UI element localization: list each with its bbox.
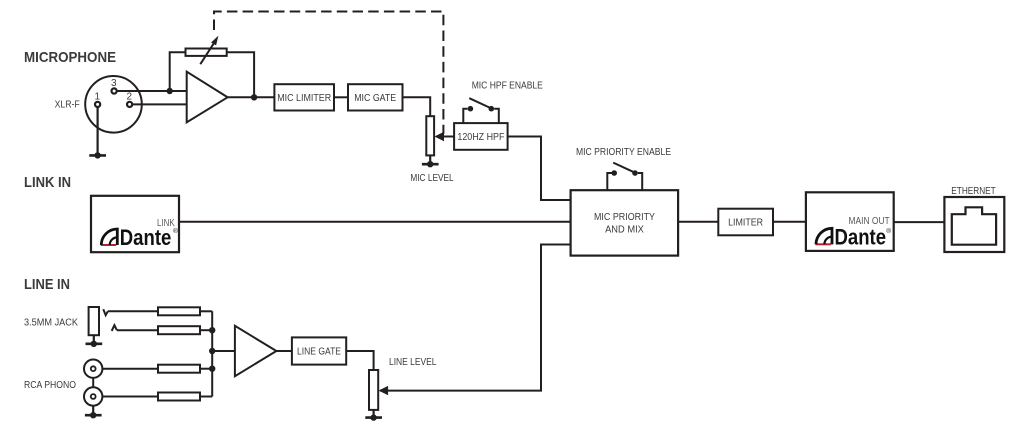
connector RCA phono 1 (84, 360, 102, 378)
jack tip contact (103, 309, 108, 315)
block MIC PRIORITY AND MIX (571, 190, 679, 255)
svg-text:MIC GATE: MIC GATE (354, 93, 396, 104)
wire R3 to bus (200, 329, 212, 331)
wire pot2 to ground (373, 410, 375, 418)
pin 2 (127, 102, 132, 107)
svg-text:ETHERNET: ETHERNET (951, 186, 995, 197)
wire limiter to gate (334, 96, 348, 98)
svg-text:LINE LEVEL: LINE LEVEL (389, 357, 437, 368)
wiper arrow MIC LEVEL (436, 136, 454, 138)
switch S2 mic priority enable (607, 173, 611, 190)
resistor R2 (158, 307, 200, 315)
wire line amp to gate (276, 350, 292, 352)
wire gate to line level pot (346, 351, 373, 370)
wire R2 to bus (200, 310, 212, 312)
svg-text:3: 3 (111, 78, 117, 89)
svg-text:LINE IN: LINE IN (24, 276, 70, 293)
op-amp U1 mic preamp (187, 72, 228, 123)
block Dante LINK (91, 196, 179, 252)
wire ring contact to R3 (117, 329, 158, 331)
wire pot to ground (429, 155, 431, 164)
potentiometer MIC LEVEL body (426, 116, 434, 155)
wire RCA1 to R4 (102, 368, 158, 370)
jack ring contact (112, 325, 117, 331)
switch S1 mic hpf enable (463, 109, 467, 123)
wire R5 to bus (200, 396, 212, 398)
block LIMITER (718, 209, 773, 236)
node bus junction R4 (209, 366, 215, 372)
svg-text:3.5MM JACK: 3.5MM JACK (24, 317, 78, 328)
wire link to mix (179, 221, 571, 223)
svg-text:XLR-F: XLR-F (55, 99, 80, 110)
wire main out to ethernet (894, 221, 945, 223)
wire feedback left branch (170, 52, 186, 91)
block LINE GATE (292, 337, 346, 364)
wire pin3 to amp input (117, 90, 187, 92)
svg-text:MIC HPF ENABLE: MIC HPF ENABLE (472, 81, 543, 92)
block MIC LIMITER (274, 84, 334, 110)
connector J1 XLR-F shell (85, 76, 142, 133)
svg-text:MIC PRIORITY ENABLE: MIC PRIORITY ENABLE (576, 147, 671, 158)
block Dante MAIN OUT (806, 192, 894, 251)
node amp output junction (251, 94, 257, 100)
svg-text:Dante: Dante (120, 225, 172, 250)
connector 3.5mm jack sleeve (89, 307, 99, 335)
dashed control link gain-to-mic-level (214, 12, 443, 135)
resistor R3 (158, 326, 200, 334)
ground XLR pin1 (89, 154, 106, 157)
wire RCA2 to ground (92, 406, 94, 416)
variable resistor R1 gain (186, 49, 227, 56)
ground LINE LEVEL (365, 416, 382, 419)
svg-text:LINE GATE: LINE GATE (297, 347, 341, 358)
svg-text:MIC LIMITER: MIC LIMITER (277, 93, 331, 104)
connector RCA phono 2 (84, 387, 102, 405)
connector ETHERNET outer (944, 197, 1004, 252)
Dante logo (LINK) (101, 225, 178, 250)
svg-text:LIMITER: LIMITER (728, 217, 763, 228)
resistor R5 (158, 393, 200, 401)
wire jack to ground (93, 335, 95, 344)
ground RCA (85, 414, 102, 417)
ground 3.5mm jack (86, 342, 103, 345)
svg-text:120HZ HPF: 120HZ HPF (457, 132, 504, 143)
wire feedback right branch (227, 52, 254, 97)
resistor R4 (158, 365, 200, 373)
op-amp U2 line amp (235, 326, 277, 376)
svg-text:2: 2 (127, 92, 133, 103)
wire hpf to mix (508, 137, 571, 201)
svg-text:MICROPHONE: MICROPHONE (24, 49, 116, 66)
wire R4 to bus (200, 368, 212, 370)
wire pin1 to ground (96, 107, 98, 155)
svg-text:AND MIX: AND MIX (605, 224, 644, 235)
Dante logo (MAIN OUT) (816, 225, 892, 250)
wire limiter to main out (773, 221, 806, 223)
potentiometer LINE LEVEL body (369, 370, 378, 410)
wire amp output (228, 96, 275, 98)
svg-text:®: ® (173, 227, 178, 235)
svg-text:Dante: Dante (835, 225, 887, 250)
wire gate to mic level pot (403, 97, 431, 116)
wire tip contact to R2 (108, 310, 158, 312)
svg-text:MIC PRIORITY: MIC PRIORITY (594, 212, 655, 223)
svg-text:1: 1 (95, 92, 101, 103)
svg-text:MIC LEVEL: MIC LEVEL (410, 173, 454, 184)
node bus junction R3 (209, 327, 215, 333)
svg-text:RCA PHONO: RCA PHONO (24, 380, 76, 391)
wire pin2 to amp input (132, 103, 187, 105)
node feedback tap junction (167, 88, 173, 94)
node bus junction amp feed (209, 348, 215, 354)
block MIC GATE (348, 84, 403, 110)
ground MIC LEVEL (422, 163, 439, 166)
wiper arrow LINE LEVEL (380, 245, 571, 391)
pin 1 (95, 102, 100, 107)
block 120HZ HPF (454, 123, 508, 150)
wire mix to limiter (678, 221, 718, 223)
connector RJ45 jack (952, 207, 996, 244)
wire bus to line amp (212, 350, 235, 352)
wire RCA2 to R5 (102, 396, 158, 398)
wire between RCA shells (92, 378, 94, 387)
pin 3 (112, 88, 117, 93)
wire summing bus (211, 311, 213, 396)
svg-text:®: ® (886, 227, 891, 235)
svg-text:LINK IN: LINK IN (24, 174, 71, 191)
